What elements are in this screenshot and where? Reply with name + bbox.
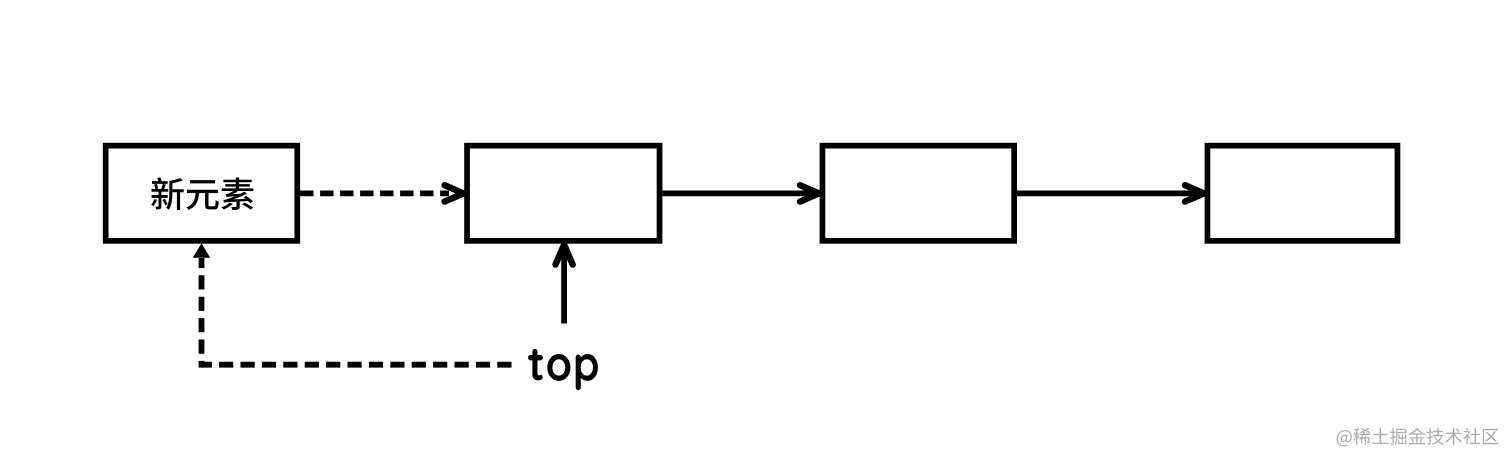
box node 2 (top of stack) <box>467 146 660 241</box>
label 新元素 <box>151 177 253 210</box>
solid up-arrow into node 2 (chevron head) <box>556 245 573 265</box>
solid arrow: node 3 to node 4 (shaft) <box>1017 190 1204 196</box>
box node 4 <box>1207 146 1397 241</box>
solid arrow: node 2 to node 3 (shaft) <box>662 190 818 196</box>
solid arrow: node 2 to node 3 (chevron head) <box>800 185 819 201</box>
solid arrow: node 3 to node 4 (chevron head) <box>1185 185 1204 201</box>
dashed arrow: 新元素 to node 2 (chevron head) <box>445 185 464 201</box>
dashed arrow: 新元素 to node 2 (shaft) <box>300 190 449 196</box>
dashed pointer: filled triangle head at 新元素 bottom <box>193 243 210 257</box>
watermark @稀土掘金技术社区 <box>1337 428 1499 447</box>
box 新元素 (node 1) <box>106 146 298 241</box>
solid up-arrow into node 2 (shaft) <box>561 246 567 324</box>
dashed pointer line: top label to 新元素 (horizontal + vertical) <box>202 258 512 365</box>
label top <box>528 349 598 390</box>
box node 3 <box>822 146 1014 241</box>
